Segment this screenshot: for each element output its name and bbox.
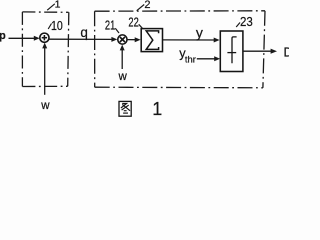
multiplier 21 [118,35,127,44]
output wire D [243,50,272,52]
summator box 22 [141,29,162,52]
svg-text:1: 1 [152,99,162,119]
wire multiplier to summator [127,39,136,41]
svg-text:10: 10 [51,18,63,33]
svg-text:q: q [80,25,88,40]
label 23 leader tick [236,23,240,28]
svg-text:p: p [0,30,6,42]
y_thr input to quantizer [179,46,220,65]
dashed box 2 (modulator block) [95,11,265,88]
w input to multiplier [118,45,128,84]
svg-text:y: y [196,25,203,41]
svg-text:w: w [118,71,128,83]
svg-text:1: 1 [55,0,61,11]
summing junction 10 [40,33,49,42]
wire q from adder to multiplier [49,38,112,40]
label 10 leader tick [48,24,51,30]
svg-text:23: 23 [240,14,253,29]
caption glyph 图 [119,101,131,116]
label 22 leader tick [139,24,143,28]
svg-text:w: w [40,100,50,112]
svg-text:21: 21 [105,17,115,32]
wire p into adder [9,37,36,39]
svg-text:2: 2 [144,0,150,11]
svg-text:22: 22 [128,14,138,29]
wire y from summator to quantizer [163,39,215,41]
dashed box 1 (adder block) [22,12,68,87]
svg-text:D: D [284,45,290,60]
quantizer box 23 [220,31,243,72]
label 2 leader tick [137,5,145,11]
label 1 leader tick [47,4,55,10]
label 21 leader tick [115,28,119,33]
svg-text:thr: thr [185,54,196,65]
w input to adder [40,43,50,112]
